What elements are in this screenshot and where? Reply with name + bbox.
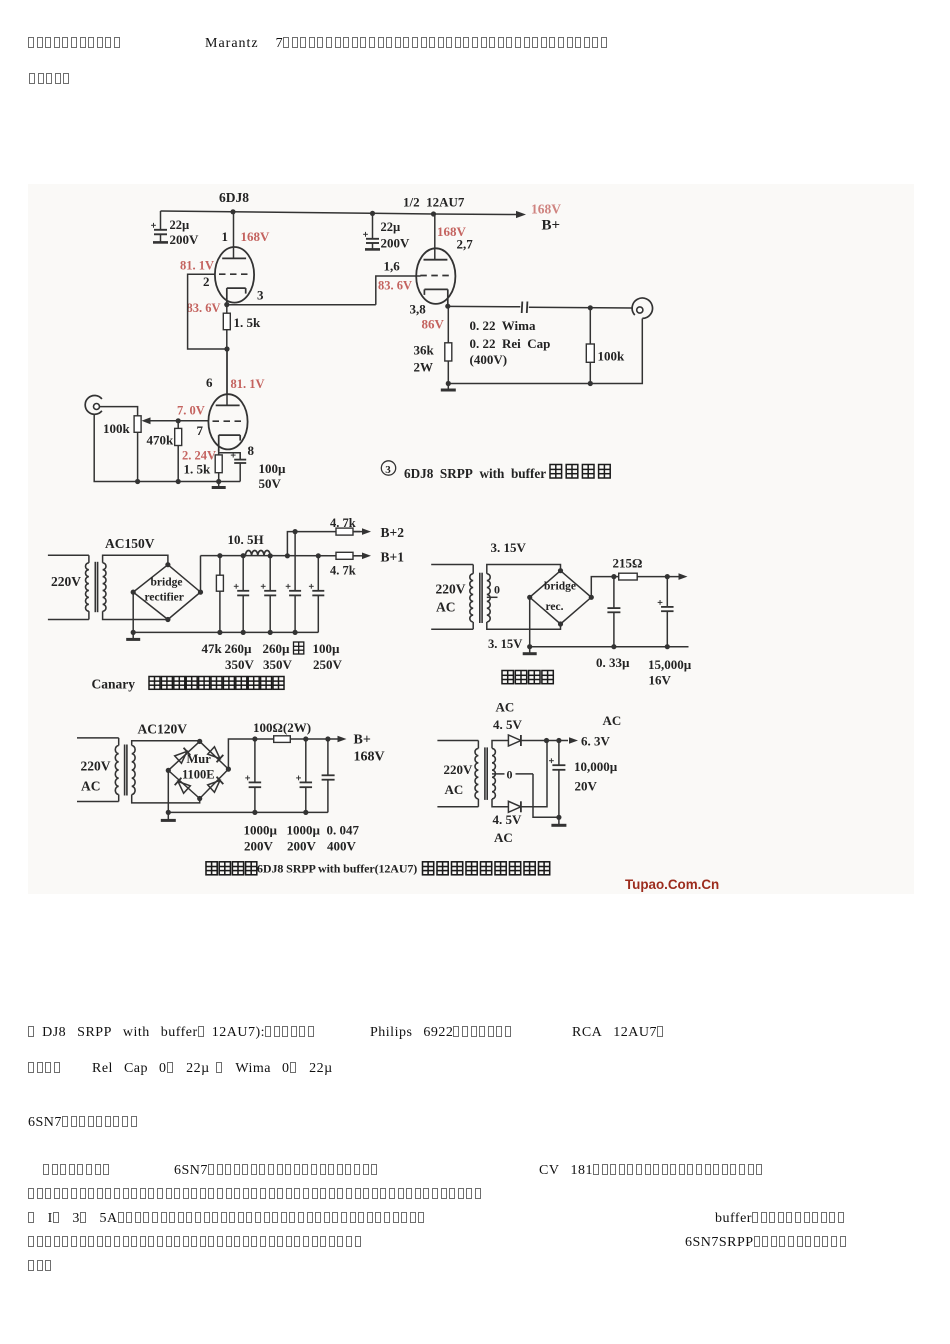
svg-text:1: 1 — [222, 229, 229, 244]
wire BR3 plus up — [228, 739, 273, 769]
svg-text:220V: 220V — [436, 582, 466, 597]
capacitor C3 22u 200V — [372, 213, 374, 238]
node cap21 top — [241, 553, 246, 558]
wire cap to output — [529, 306, 633, 309]
tube V2 12AU7 half — [416, 248, 455, 304]
capacitor C42 1000u — [305, 739, 307, 782]
svg-text:100k: 100k — [103, 421, 131, 436]
svg-text:8: 8 — [248, 443, 255, 458]
node SRPP mid junction — [224, 346, 229, 351]
wire cathode branch to C2 — [219, 449, 241, 459]
svg-text:260µ: 260µ — [225, 641, 253, 656]
wire B+1 rail S2 — [201, 555, 337, 557]
svg-text:0. 22 Rei Cap: 0. 22 Rei Cap — [470, 336, 551, 351]
arrow B+ rail — [516, 211, 526, 218]
svg-text:83. 6V: 83. 6V — [378, 279, 412, 293]
svg-text:0. 047: 0. 047 — [327, 823, 360, 838]
svg-text:0. 33µ: 0. 33µ — [596, 655, 630, 670]
node gnd c42 — [303, 810, 308, 815]
node gnd rail S2 — [131, 630, 136, 635]
node BR2 top — [558, 568, 563, 573]
svg-text:3,8: 3,8 — [410, 302, 427, 317]
resistor R2 1.5k cathode — [218, 453, 220, 455]
node BR1 right — [198, 590, 203, 595]
ground G2 — [447, 384, 449, 391]
node rail junction cap C3 — [370, 211, 375, 216]
node V2 cathode out — [445, 304, 450, 309]
resistor R1 1.5k — [226, 305, 228, 313]
svg-text:AC: AC — [494, 830, 513, 845]
svg-text:168V: 168V — [531, 202, 561, 217]
wire cap23 tall lead — [294, 532, 296, 591]
diode D3 bottom-left edge — [175, 778, 191, 793]
svg-text:6DJ8: 6DJ8 — [219, 190, 249, 205]
caption circled 3 — [381, 461, 395, 475]
wire BR2 minus down — [529, 597, 531, 646]
svg-text:1100E: 1100E — [182, 768, 215, 782]
wire primary top lead S2 — [48, 554, 89, 556]
node c41 top — [252, 736, 257, 741]
svg-text:3: 3 — [257, 288, 264, 303]
wire B+2 branch — [287, 532, 336, 556]
node V1a cathode junction — [224, 302, 229, 307]
svg-text:10. 5H: 10. 5H — [228, 532, 264, 547]
node BR1 left — [131, 590, 136, 595]
svg-text:bridge: bridge — [544, 581, 576, 593]
node gnd S5 — [556, 815, 561, 820]
node rail junction 12AU7 anode — [431, 211, 436, 216]
node gnd c32 — [665, 644, 670, 649]
svg-text:2: 2 — [203, 274, 210, 289]
wire input to pot — [100, 407, 138, 416]
wire out to coupling cap — [448, 305, 521, 307]
svg-text:B+2: B+2 — [381, 525, 405, 540]
svg-text:200V: 200V — [381, 236, 411, 251]
caption dengsi bufen (CJK) — [502, 671, 513, 684]
svg-text:20V: 20V — [575, 779, 598, 794]
svg-text:6DJ8 SRPP with buffer(12AU7): 6DJ8 SRPP with buffer(12AU7) — [257, 862, 417, 876]
svg-text:250V: 250V — [313, 657, 343, 672]
wire V1a grid loop — [188, 274, 227, 349]
node gnd 47k — [217, 630, 222, 635]
capacitor C51 10000u — [558, 741, 560, 766]
node BR2 bottom — [558, 621, 563, 626]
svg-text:4. 5V: 4. 5V — [493, 812, 523, 827]
svg-text:1. 5k: 1. 5k — [184, 462, 212, 477]
svg-text:400V: 400V — [327, 839, 357, 854]
node cap24 top — [316, 553, 321, 558]
svg-text:200V: 200V — [170, 232, 200, 247]
wire secondary top to bridge S4 — [132, 741, 200, 746]
node cap top S5 — [556, 738, 561, 743]
wire primary top lead S5 — [437, 740, 478, 742]
diode D6 bottom — [508, 801, 521, 812]
svg-text:AC: AC — [445, 782, 464, 797]
ground G4 — [529, 647, 531, 654]
svg-text:81. 1V: 81. 1V — [180, 259, 214, 273]
svg-text:Mur: Mur — [187, 752, 212, 766]
wire sec top to D5 — [492, 741, 508, 749]
svg-text:B+1: B+1 — [381, 550, 405, 565]
svg-text:36k: 36k — [414, 343, 435, 358]
wiper arrow VR1 — [142, 417, 151, 424]
node gnd rail R5 — [588, 381, 593, 386]
wire D5 to out — [521, 740, 568, 742]
svg-text:100Ω(2W): 100Ω(2W) — [253, 720, 311, 735]
node anode-rail junction 6DJ8 — [230, 209, 235, 214]
svg-text:100µ: 100µ — [259, 461, 287, 476]
wire BR3 minus down — [167, 770, 169, 812]
arrow B+2 — [353, 531, 364, 533]
svg-text:200V: 200V — [244, 839, 274, 854]
node rail-R2 — [216, 479, 221, 484]
diode D2 top-right edge — [208, 747, 224, 762]
wire sec bottom to D6 — [492, 799, 508, 807]
svg-text:2,7: 2,7 — [457, 237, 474, 252]
wire secondary bottom to bridge S4 — [132, 795, 200, 803]
node BR1 top — [165, 562, 170, 567]
svg-text:3: 3 — [385, 464, 391, 476]
capacitor C22 260u — [269, 556, 271, 591]
svg-text:1/2 12AU7: 1/2 12AU7 — [403, 195, 465, 210]
wire input ground rail — [94, 414, 240, 481]
wire gnd rail S4 — [168, 811, 328, 813]
wire primary bottom lead S5 — [437, 806, 478, 808]
caption gaoya ji dengsi (CJK) — [423, 862, 434, 875]
node BR2 right — [589, 595, 594, 600]
svg-text:1000µ: 1000µ — [287, 823, 321, 838]
svg-text:220V: 220V — [81, 759, 111, 774]
transformer T3 — [115, 746, 118, 795]
resistor R6 47k — [219, 556, 221, 576]
svg-text:1. 5k: 1. 5k — [234, 315, 262, 330]
node BR3 left — [166, 768, 171, 773]
capacitor C31 0.33u — [613, 577, 615, 608]
wire primary bottom lead S2 — [48, 619, 89, 621]
svg-text:200V: 200V — [287, 839, 317, 854]
inductor L1 10.5H — [245, 551, 270, 556]
svg-text:rectifier: rectifier — [145, 592, 184, 604]
node 47k top — [217, 553, 222, 558]
node out cap junction — [665, 574, 670, 579]
svg-text:350V: 350V — [225, 657, 255, 672]
arrow B+ S4 — [338, 736, 347, 743]
node c43 top — [325, 736, 330, 741]
svg-text:Canary: Canary — [92, 677, 136, 692]
wire gnd rail S3 — [530, 646, 689, 648]
svg-text:0. 22 Wima: 0. 22 Wima — [470, 318, 536, 333]
svg-text:7. 0V: 7. 0V — [177, 404, 205, 418]
wire output ground rail — [448, 319, 642, 384]
transformer T4 — [475, 748, 478, 799]
node BR3 bottom — [197, 796, 202, 801]
svg-text:4. 5V: 4. 5V — [493, 717, 523, 732]
label ge (CJK each) — [294, 642, 304, 654]
ground G5 — [167, 812, 169, 820]
arrow S3 out — [679, 573, 688, 580]
svg-text:B+: B+ — [542, 218, 561, 234]
node out-100k junction — [588, 305, 593, 310]
svg-text:0: 0 — [507, 768, 513, 782]
svg-text:220V: 220V — [444, 762, 474, 777]
diode D5 top — [508, 735, 521, 746]
caption qianji gaoya (CJK) — [149, 677, 160, 690]
svg-text:100µ: 100µ — [313, 641, 341, 656]
transformer T2 — [470, 574, 473, 622]
svg-text:22µ: 22µ — [381, 220, 401, 234]
connector J1 input — [85, 396, 102, 415]
svg-text:3. 15V: 3. 15V — [491, 540, 527, 555]
node grid junction 470k — [176, 418, 181, 423]
bridge rectifier BR2 diamond — [530, 571, 592, 624]
wire secondary top to bridge — [103, 555, 168, 564]
svg-text:6. 3V: 6. 3V — [581, 734, 611, 749]
center tap 0 S5 — [492, 773, 505, 775]
potentiometer VR1 100k — [137, 415, 139, 417]
node cap22 top — [268, 553, 273, 558]
tube V1a 6DJ8 upper half — [215, 247, 254, 303]
resistor R3 470k — [177, 421, 179, 429]
svg-text:Tupao.Com.Cn: Tupao.Com.Cn — [625, 877, 719, 892]
svg-text:bridge: bridge — [151, 577, 183, 589]
capacitor C24 100u 250V — [317, 556, 319, 591]
svg-text:4. 7k: 4. 7k — [330, 564, 356, 578]
svg-text:AC150V: AC150V — [105, 536, 155, 551]
center tap stub — [487, 596, 498, 598]
svg-text:350V: 350V — [263, 657, 293, 672]
svg-text:AC: AC — [603, 713, 622, 728]
svg-text:470k: 470k — [147, 433, 175, 448]
caption xianlu bufen (CJK) — [550, 465, 562, 479]
svg-text:83. 6V: 83. 6V — [187, 301, 221, 315]
svg-text:(400V): (400V) — [470, 352, 508, 367]
capacitor C2 100u 50V — [239, 453, 241, 460]
svg-text:47k: 47k — [202, 641, 223, 656]
node D5 out — [544, 738, 549, 743]
svg-text:2W: 2W — [414, 360, 434, 375]
svg-text:4. 7k: 4. 7k — [330, 516, 356, 530]
node c42 top — [303, 736, 308, 741]
node BR1 bottom — [165, 617, 170, 622]
capacitor C41 1000u — [254, 739, 256, 782]
svg-text:81. 1V: 81. 1V — [231, 377, 265, 391]
capacitor C43 0.047 — [327, 739, 329, 775]
ground G3 — [132, 632, 134, 639]
wire out rail S3 — [637, 576, 679, 578]
diode D4 bottom-right edge — [208, 777, 224, 792]
node 215ohm left — [611, 574, 616, 579]
wire BR1 plus up — [200, 556, 202, 593]
diode D1 top-left edge — [175, 748, 191, 763]
node B+2 tap — [285, 553, 290, 558]
svg-text:3. 15V: 3. 15V — [488, 637, 522, 651]
svg-text:6DJ8 SRPP with buffer: 6DJ8 SRPP with buffer — [404, 466, 546, 481]
svg-text:86V: 86V — [422, 317, 445, 332]
node gnd c31 — [611, 644, 616, 649]
svg-text:6: 6 — [206, 375, 213, 390]
arrow B+1 — [353, 555, 364, 557]
svg-text:AC: AC — [436, 600, 456, 615]
bridge BR3 diamond Murs — [168, 741, 228, 798]
wire BR1 minus down — [132, 592, 134, 632]
wire primary bottom lead S3 — [431, 628, 473, 630]
svg-text:100k: 100k — [598, 349, 626, 364]
capacitor C23 100u — [294, 589, 296, 591]
wire secondary top to bridge S3 — [487, 565, 561, 574]
node gnd c41 — [252, 810, 257, 815]
ground G6 — [558, 817, 560, 825]
svg-text:B+: B+ — [354, 733, 371, 748]
wire D6 up to out — [521, 741, 547, 807]
wire secondary bottom to bridge S3 — [487, 622, 561, 629]
svg-text:rec.: rec. — [546, 601, 564, 613]
wire gnd rail S2 — [133, 631, 318, 633]
svg-text:168V: 168V — [241, 229, 271, 244]
svg-text:260µ: 260µ — [263, 641, 291, 656]
svg-text:AC120V: AC120V — [138, 722, 188, 737]
node BR2 left — [527, 595, 532, 600]
tube V1b 6DJ8 lower half (buffer) — [208, 394, 247, 449]
svg-text:215Ω: 215Ω — [613, 556, 643, 571]
svg-text:AC: AC — [81, 779, 101, 794]
node gnd rail S4 left — [166, 810, 171, 815]
capacitor C1 22u 200V — [160, 211, 162, 230]
caption bizhe zhizuo (CJK) — [206, 862, 217, 875]
svg-text:2. 24V: 2. 24V — [182, 449, 216, 463]
svg-text:1000µ: 1000µ — [244, 823, 278, 838]
wire B+ top rail — [161, 211, 518, 215]
wire V2 grid loop — [376, 276, 421, 305]
resistor R9 215ohm — [619, 573, 638, 580]
svg-text:50V: 50V — [259, 476, 282, 491]
wire down to buffer tube — [226, 349, 228, 395]
node gnd rail R4 — [446, 381, 451, 386]
resistor R4 36k 2W — [447, 306, 449, 343]
wire primary bottom lead S4 — [77, 801, 119, 803]
bridge rectifier BR1 diamond — [133, 565, 200, 620]
svg-text:AC: AC — [496, 700, 515, 715]
wire secondary bottom to bridge — [103, 611, 168, 619]
node gnd c22 — [268, 630, 273, 635]
svg-text:15,000µ: 15,000µ — [648, 657, 692, 672]
node BR3 top — [197, 739, 202, 744]
svg-text:220V: 220V — [51, 574, 81, 589]
svg-text:10,000µ: 10,000µ — [574, 759, 618, 774]
svg-text:7: 7 — [197, 423, 204, 438]
svg-text:22µ: 22µ — [170, 218, 190, 232]
transformer T1 — [85, 563, 88, 611]
svg-text:16V: 16V — [649, 673, 672, 688]
node B+2 cap3 junction — [293, 529, 298, 534]
node gnd rail S3 left — [527, 644, 532, 649]
wire center tap down — [533, 774, 559, 817]
svg-text:1,6: 1,6 — [384, 259, 401, 274]
node gnd c23 — [293, 630, 298, 635]
capacitor C4 0.22 coupling — [521, 302, 524, 314]
wire primary top lead S3 — [431, 564, 473, 566]
ground G1 — [218, 482, 220, 488]
wire primary top lead S4 — [77, 737, 119, 739]
resistor R7 4.7k B+2 — [335, 531, 337, 533]
svg-text:168V: 168V — [354, 750, 385, 765]
connector J2 output — [632, 298, 652, 318]
node BR3 right — [226, 767, 231, 772]
wire rail after R10 — [290, 738, 338, 740]
capacitor C21 260u — [242, 556, 244, 591]
capacitor C32 15000u — [666, 577, 668, 607]
wire BR2 plus up — [591, 577, 618, 598]
resistor R5 100k — [589, 308, 591, 344]
resistor R10 100ohm — [274, 736, 291, 743]
wire V1a cathode to V2 grid line — [227, 304, 376, 306]
resistor R8 4.7k B+1 — [318, 555, 336, 557]
svg-text:0: 0 — [494, 583, 500, 597]
node rail-470k — [176, 479, 181, 484]
node gnd c21 — [241, 630, 246, 635]
node rail-pot — [135, 479, 140, 484]
arrow 6.3V — [569, 737, 578, 744]
